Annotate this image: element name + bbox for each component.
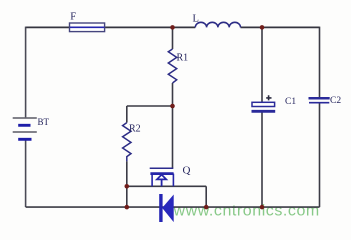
svg-text:L: L — [193, 14, 199, 25]
battery BT long plate 1 — [13, 117, 37, 119]
svg-text:BT: BT — [38, 117, 50, 127]
battery BT long plate 2 — [13, 131, 37, 133]
fuse F body — [70, 23, 105, 32]
capacitor C1 bottom plate — [252, 110, 276, 113]
mosfet Q center stub — [161, 179, 163, 186]
junction dot R2 source — [125, 184, 130, 189]
resistor R1 — [168, 49, 176, 83]
wire gate feed from node A — [172, 106, 174, 168]
wire R2 bottom — [126, 161, 128, 186]
junction dot R2 bottom rail — [125, 205, 130, 210]
svg-text:C2: C2 — [330, 96, 341, 106]
wire R1 bottom to node A — [172, 83, 174, 106]
fuse F inner wire — [70, 26, 104, 28]
mosfet Q gate plate — [150, 167, 174, 169]
junction dot top rail R1 — [170, 25, 175, 30]
wire left rail lower — [25, 141, 27, 208]
battery BT short plate 2 — [18, 138, 31, 141]
junction node A — [170, 104, 175, 109]
battery BT short plate 1 — [18, 124, 30, 127]
wire source horizontal — [127, 185, 206, 187]
diode cathode bar — [159, 194, 162, 222]
svg-text:R2: R2 — [129, 124, 141, 135]
wire C1 branch lower — [261, 112, 263, 207]
diode triangle — [163, 196, 173, 221]
wire bottom rail — [26, 206, 320, 208]
svg-text:C1: C1 — [285, 97, 296, 107]
mosfet Q right stub — [172, 174, 174, 187]
wire right rail upper — [319, 27, 321, 98]
mosfet Q left stub — [151, 174, 153, 187]
inductor L — [195, 22, 240, 27]
mosfet Q substrate arrow — [157, 175, 166, 180]
wire source drop to bottom rail — [205, 186, 207, 207]
junction dot C1 bottom rail — [260, 205, 265, 210]
capacitor C2 bottom plate — [309, 102, 329, 104]
wire right rail lower — [319, 103, 321, 207]
capacitor C1 polarity plus — [266, 95, 271, 100]
wire node A horizontal — [127, 105, 173, 107]
wire R2 junction to bottom rail — [126, 186, 128, 207]
svg-text:R1: R1 — [177, 53, 189, 64]
wire top rail left segment — [26, 26, 70, 28]
svg-text:F: F — [70, 12, 76, 23]
wire R1 branch top — [172, 27, 174, 49]
wire top rail right segment — [241, 26, 320, 28]
capacitor C2 top plate — [309, 97, 330, 100]
wire left rail upper — [25, 27, 27, 118]
wire C1 branch upper — [261, 27, 263, 102]
wire top rail middle segment — [105, 26, 196, 28]
capacitor C1 top plate — [252, 102, 275, 106]
svg-text:Q: Q — [183, 165, 191, 177]
wire R2 branch top — [126, 106, 128, 123]
resistor R2 — [123, 123, 131, 162]
mosfet Q channel — [150, 172, 173, 175]
junction dot top rail C1 — [260, 25, 265, 30]
junction dot source bottom rail — [204, 205, 209, 210]
svg-text:www.cntronics.com: www.cntronics.com — [173, 203, 320, 220]
